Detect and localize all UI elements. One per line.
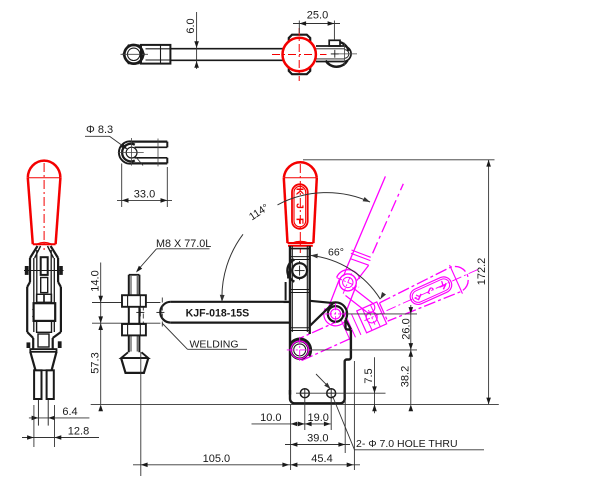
lower pivot boss arc — [290, 339, 311, 350]
dimension 172.2 — [303, 159, 495, 161]
base holes — [300, 389, 309, 398]
side view body neck — [30, 246, 38, 258]
plate top edge — [310, 301, 335, 303]
side view flange — [30, 349, 56, 352]
top view handle bracket — [289, 35, 310, 74]
svg-text:2- Φ 7.0 HOLE THRU: 2- Φ 7.0 HOLE THRU — [356, 438, 458, 450]
svg-text:57.3: 57.3 — [90, 352, 102, 373]
projection lines arm edges — [92, 302, 160, 304]
base holes centerline — [296, 392, 386, 394]
label 2- dia 7.0 HOLE THRU — [316, 374, 329, 388]
side view trapezoid — [30, 352, 35, 371]
main view lever bar — [289, 246, 291, 395]
detail fork inner ring arc — [122, 144, 135, 162]
top view pin cross — [331, 53, 339, 55]
base outline — [290, 320, 351, 404]
lower pivot — [291, 341, 309, 359]
side view inner channel lines — [33, 258, 35, 332]
svg-text:105.0: 105.0 — [203, 453, 231, 465]
open position clamp arm group — [288, 255, 485, 367]
top view link tab — [329, 40, 340, 46]
top view red crosshair — [272, 54, 327, 56]
side view top pivot pin — [25, 266, 29, 275]
svg-text:14.0: 14.0 — [90, 270, 102, 291]
svg-text:39.0: 39.0 — [307, 433, 328, 445]
dimension 12.8 — [33, 405, 35, 447]
svg-text:33.0: 33.0 — [134, 189, 155, 201]
main view clamp arm closed — [160, 302, 170, 323]
top view clevis bracket — [141, 45, 170, 64]
svg-text:6.4: 6.4 — [62, 406, 77, 418]
side view prongs — [34, 370, 41, 399]
magenta boss around middle pivot — [324, 305, 348, 326]
open shank collar rings — [352, 250, 371, 257]
angle arc 114 — [222, 234, 243, 301]
top pivot boss arc — [287, 260, 294, 282]
svg-text:KJF-018-15S: KJF-018-15S — [186, 308, 250, 320]
top view pivot barrel arcs — [326, 61, 348, 67]
top pivot — [292, 263, 307, 278]
svg-text:19.0: 19.0 — [307, 412, 328, 424]
plate diagonal to base tab — [346, 320, 351, 330]
open link piece — [353, 288, 374, 304]
dimension 25.0 — [298, 21, 300, 34]
side view slider block — [34, 303, 56, 321]
main view red handle — [284, 162, 317, 178]
svg-text:45.4: 45.4 — [311, 453, 332, 465]
spindle foot — [121, 352, 148, 358]
spindle centerline extension — [140, 352, 142, 476]
detail fork crosshairs — [118, 152, 144, 154]
top view rod — [170, 48, 282, 50]
hex nut lower — [122, 324, 146, 335]
open grip pill — [408, 274, 455, 307]
top view link bars — [316, 45, 345, 47]
bottom dimensions extension lines — [290, 405, 292, 470]
top view link rounded end — [345, 46, 351, 61]
svg-text:38.2: 38.2 — [399, 366, 411, 387]
top view red grip circle — [283, 38, 316, 71]
svg-text:10.0: 10.0 — [260, 412, 281, 424]
svg-text:172.2: 172.2 — [476, 258, 488, 286]
side view red handle — [28, 161, 61, 178]
svg-text:25.0: 25.0 — [307, 10, 328, 22]
dimension 45.4 and 105.0 — [133, 464, 360, 466]
svg-text:WELDING: WELDING — [190, 339, 239, 351]
dimension 14.0 and 57.3 line — [100, 263, 102, 405]
svg-text:7.5: 7.5 — [363, 368, 375, 383]
open lever plates — [344, 286, 356, 318]
svg-text:Φ 8.3: Φ 8.3 — [86, 124, 113, 136]
middle pivot — [328, 306, 344, 322]
side view lower pivot pin — [27, 342, 31, 348]
main handle centerline — [299, 164, 301, 253]
open grip dome neck line — [450, 265, 463, 294]
dimension 6.4 — [29, 417, 90, 419]
dimension 26.0 and 38.2 — [346, 313, 418, 315]
top view end crosshair — [344, 43, 346, 66]
side view body outer profile — [29, 258, 31, 282]
open grip outline — [378, 262, 472, 324]
svg-text:J: J — [294, 203, 305, 209]
open top pivot boss — [339, 274, 356, 291]
side view nut pair — [37, 294, 44, 302]
side view red handle centerline — [43, 163, 45, 250]
main handle pill — [292, 184, 308, 229]
svg-text:F: F — [294, 218, 305, 224]
dimension 7.5 — [374, 357, 376, 413]
plate rib diagonal — [310, 303, 333, 326]
dimension 6.0 — [196, 12, 198, 69]
hex nut upper — [122, 295, 146, 307]
dimension 39.0 — [285, 444, 350, 446]
svg-text:12.8: 12.8 — [68, 426, 89, 438]
open grip axis centerline — [387, 270, 478, 311]
svg-text:K: K — [294, 188, 305, 196]
spindle alternate position dashes — [142, 298, 144, 328]
dimension 10.0 and 19.0 — [252, 423, 331, 425]
detail fork prongs — [132, 141, 168, 143]
top view hex nut — [123, 45, 144, 63]
side view center link rect — [41, 257, 48, 275]
svg-text:66°: 66° — [328, 247, 344, 259]
label dia 8.3 leader — [85, 135, 110, 137]
svg-text:M8 X 77.0L: M8 X 77.0L — [156, 238, 211, 250]
dimension 33.0 — [121, 164, 123, 208]
side view lower rects — [37, 321, 52, 332]
detail fork hole — [126, 147, 137, 158]
svg-text:26.0: 26.0 — [401, 318, 413, 339]
middle pivot boss arc — [331, 302, 347, 319]
angle arc 66 — [311, 255, 381, 299]
open position arm shank steep — [347, 176, 386, 267]
top view hex nut centerline — [121, 53, 149, 55]
detail fork outer arc — [119, 141, 132, 163]
svg-text:6.0: 6.0 — [185, 18, 197, 33]
spindle rod M8 — [128, 275, 130, 352]
bottom reference line — [91, 403, 499, 405]
spindle position crosses — [136, 311, 144, 313]
